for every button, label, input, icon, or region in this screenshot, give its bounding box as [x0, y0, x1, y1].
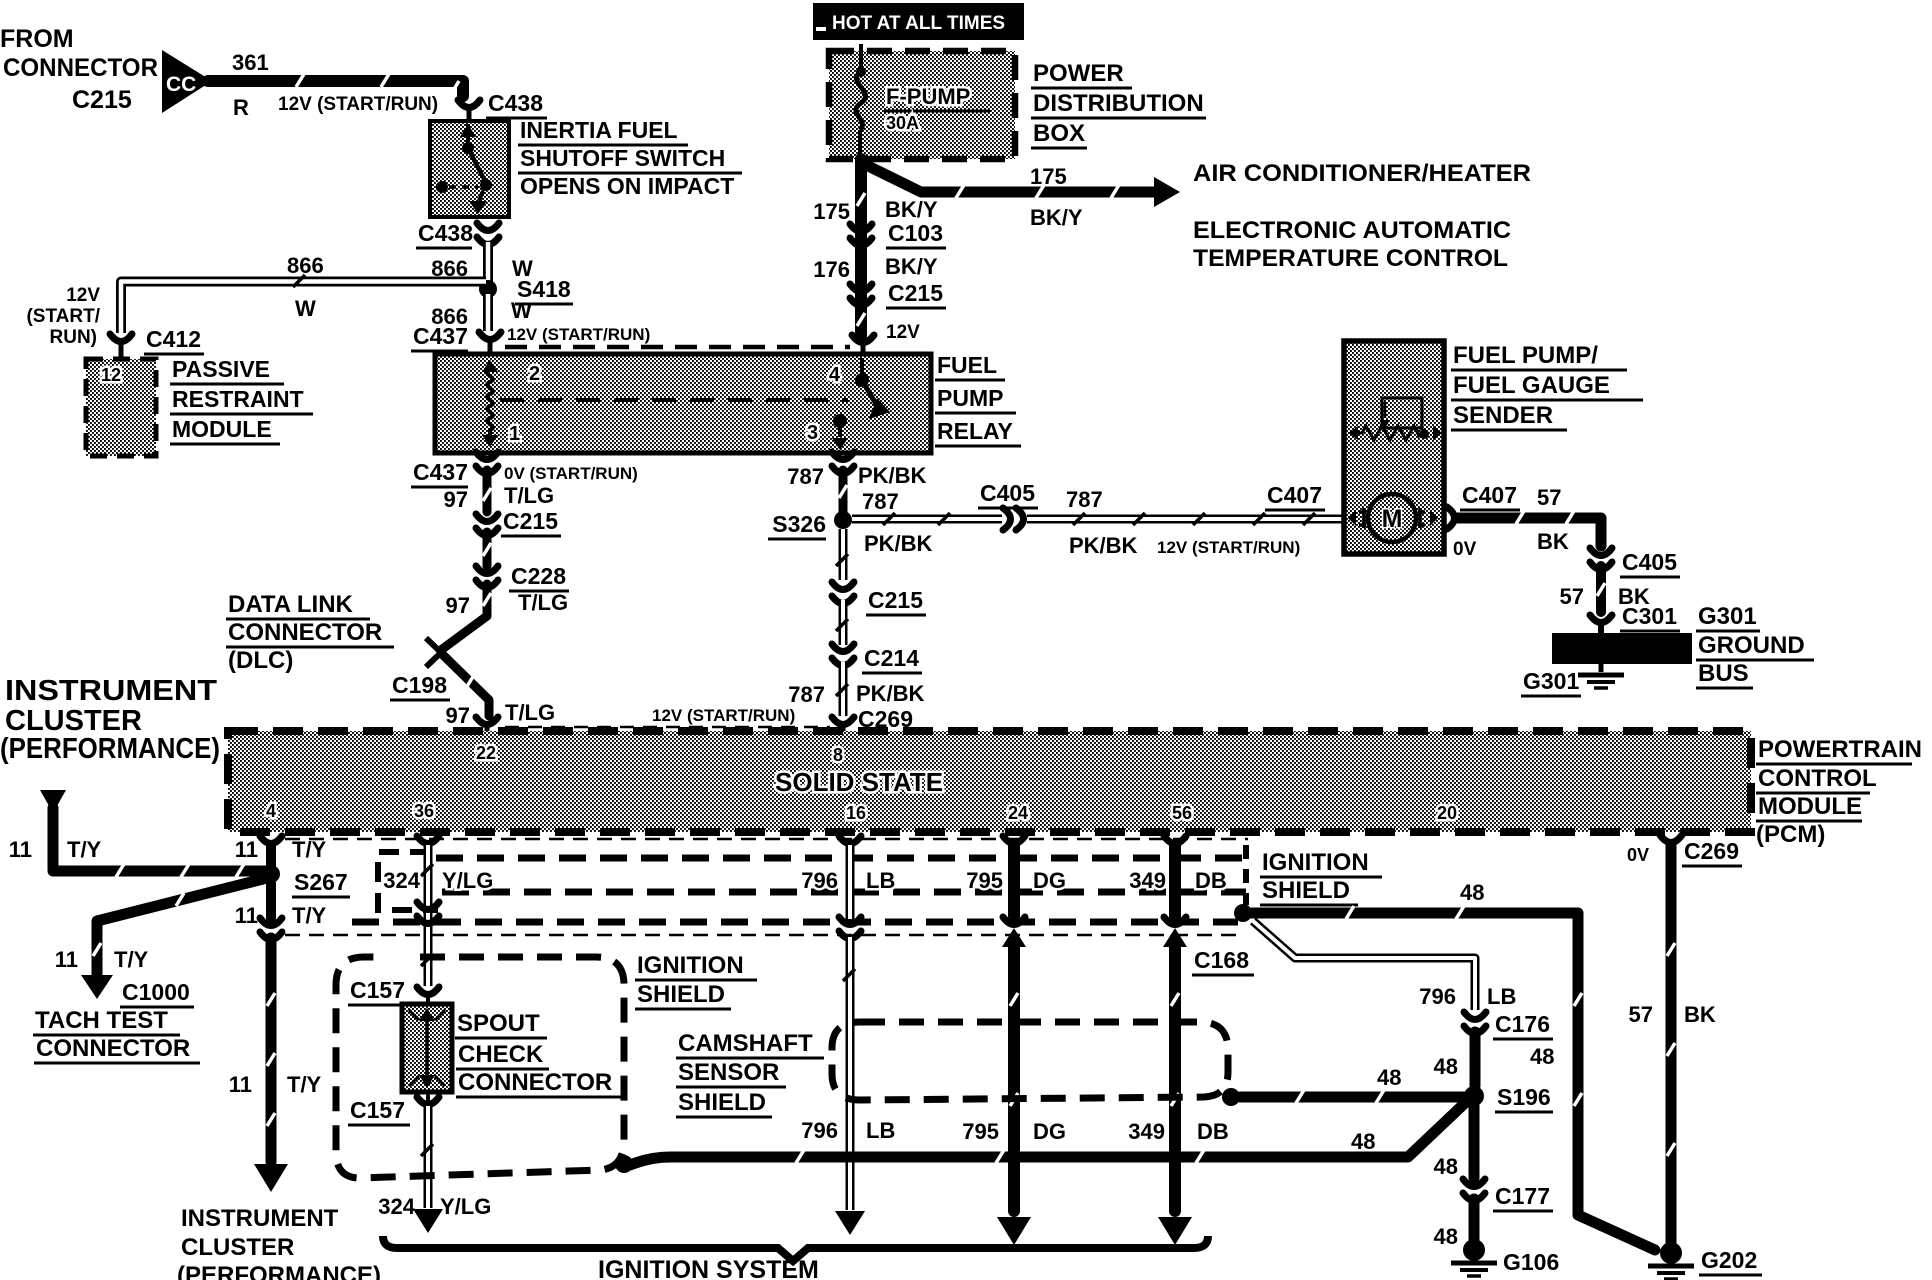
svg-text:BK: BK — [1684, 1002, 1716, 1027]
connector C103 — [813, 197, 946, 248]
svg-text:R: R — [233, 95, 249, 120]
svg-text:BK/Y: BK/Y — [885, 254, 938, 279]
label C168 — [1192, 947, 1254, 975]
wire 97 T/LG to data link connector — [441, 584, 568, 650]
svg-text:BK: BK — [1537, 529, 1569, 554]
power distribution box — [829, 51, 1015, 159]
svg-text:CONTROL: CONTROL — [1758, 765, 1877, 792]
svg-text:48: 48 — [1530, 1044, 1554, 1069]
wire 48 ignition shield to G202 — [1252, 880, 1655, 1250]
wire 787 to C214 — [836, 600, 848, 645]
label fuel pump/fuel gauge sender — [1451, 342, 1643, 430]
connector wire 796 shield exit — [839, 917, 861, 939]
fuel pump motor M — [1348, 494, 1438, 542]
connector C438 bottom pair — [416, 220, 499, 248]
svg-text:2: 2 — [529, 363, 540, 385]
connector C157 bottom — [348, 1096, 439, 1125]
wire 97 T/LG to C215 — [444, 470, 555, 512]
svg-text:Y/LG: Y/LG — [442, 868, 493, 893]
svg-text:12V: 12V — [886, 322, 920, 343]
svg-text:SPOUT: SPOUT — [457, 1010, 540, 1037]
wire antenna to S267 — [53, 864, 266, 877]
connector pin 56 exit — [1164, 836, 1186, 844]
svg-text:IGNITION SYSTEM: IGNITION SYSTEM — [598, 1256, 819, 1280]
svg-text:57: 57 — [1629, 1002, 1653, 1027]
svg-text:11: 11 — [235, 837, 258, 862]
data link connector X symbol — [426, 638, 456, 667]
svg-text:4: 4 — [829, 364, 841, 386]
svg-text:11: 11 — [235, 903, 258, 928]
label power distribution box — [1031, 60, 1206, 148]
svg-text:PK/BK: PK/BK — [858, 463, 927, 488]
svg-text:48: 48 — [1460, 880, 1484, 905]
svg-text:DG: DG — [1033, 1119, 1066, 1144]
svg-text:T/Y: T/Y — [292, 837, 327, 862]
connector C215 (BK/Y) — [813, 254, 946, 308]
svg-text:PK/BK: PK/BK — [864, 531, 933, 556]
svg-text:G301: G301 — [1698, 603, 1757, 630]
svg-text:BK/Y: BK/Y — [1030, 205, 1083, 230]
wire 57 BK pin 20 to G202 — [1629, 845, 1716, 1246]
svg-text:48: 48 — [1351, 1129, 1375, 1154]
label passive restraint module — [170, 356, 313, 444]
svg-text:IGNITION: IGNITION — [637, 952, 744, 979]
switch blade inside inertia switch — [436, 124, 492, 214]
svg-text:PK/BK: PK/BK — [856, 681, 925, 706]
connector C157 top — [348, 977, 439, 1005]
svg-text:C177: C177 — [1495, 1183, 1550, 1209]
wire 11 T/Y pin4 to S267 — [266, 845, 276, 866]
wire 795 DG lower — [962, 940, 1066, 1245]
svg-text:T/Y: T/Y — [114, 947, 149, 972]
connector C437 bottom — [411, 452, 638, 487]
spout check connector box — [402, 1004, 452, 1092]
label HOT AT ALL TIMES — [813, 3, 1024, 40]
svg-text:INSTRUMENT: INSTRUMENT — [5, 675, 217, 707]
ignition shield node dot — [1234, 904, 1252, 922]
ignition shield right closure — [1243, 845, 1249, 905]
svg-text:795: 795 — [962, 1119, 999, 1144]
svg-text:324: 324 — [383, 868, 420, 893]
label G301 left — [1521, 668, 1581, 696]
wire 11 T/Y long to instrument cluster — [229, 938, 322, 1192]
svg-text:PK/BK: PK/BK — [1069, 533, 1138, 558]
svg-text:LB: LB — [866, 868, 895, 893]
svg-text:11: 11 — [55, 947, 78, 972]
svg-text:C168: C168 — [1194, 947, 1249, 973]
svg-text:CONNECTOR: CONNECTOR — [36, 1035, 190, 1062]
svg-text:C438: C438 — [488, 90, 543, 116]
svg-text:57: 57 — [1537, 485, 1561, 510]
svg-text:C407: C407 — [1462, 482, 1517, 508]
svg-text:G202: G202 — [1701, 1247, 1757, 1273]
wire 796 LB upper — [801, 845, 895, 919]
connector pin3 exit 787 — [787, 452, 926, 489]
svg-text:C176: C176 — [1495, 1011, 1550, 1037]
svg-text:12V: 12V — [66, 285, 100, 306]
wire 175 BK/Y branch to air conditioner — [862, 163, 1180, 207]
svg-text:PUMP: PUMP — [937, 385, 1003, 411]
fuel pump/fuel gauge sender box — [1344, 341, 1444, 554]
svg-text:IGNITION: IGNITION — [1262, 849, 1369, 876]
connector pin 24 exit — [1003, 836, 1025, 844]
connector wire 349 shield exit — [1163, 917, 1187, 947]
label instrument cluster (performance) mid-left — [0, 675, 220, 765]
wire 349 DB — [1129, 845, 1227, 916]
svg-text:97: 97 — [444, 487, 468, 512]
svg-text:11: 11 — [9, 837, 32, 862]
svg-text:G301: G301 — [1523, 668, 1579, 694]
svg-text:T/LG: T/LG — [518, 590, 568, 615]
connector C215 (787) — [832, 582, 926, 615]
PCM pin numbers — [266, 743, 1457, 823]
svg-text:C215: C215 — [868, 587, 923, 613]
svg-text:30A: 30A — [886, 113, 919, 133]
svg-text:C405: C405 — [1622, 549, 1677, 575]
svg-text:CC: CC — [166, 73, 196, 96]
svg-text:796: 796 — [1419, 984, 1456, 1009]
label camshaft sensor shield — [676, 1030, 824, 1117]
wire 57 BK sender to C405 — [1458, 511, 1601, 546]
label instrument cluster (performance) bottom — [177, 1205, 381, 1280]
connector 12V into relay pin 4 — [852, 322, 920, 355]
fuse F-PUMP 30A — [856, 44, 990, 160]
connector C407 left — [1265, 482, 1353, 530]
label air conditioner/heater — [1193, 160, 1531, 187]
relay coil pins 2-1 — [482, 360, 540, 447]
camshaft sensor shield oval — [832, 1022, 1228, 1100]
svg-text:TACH TEST: TACH TEST — [35, 1007, 168, 1034]
svg-text:POWERTRAIN: POWERTRAIN — [1758, 736, 1922, 763]
label 175 BK/Y branch — [1030, 164, 1083, 230]
connector pin 4 exit — [235, 836, 327, 862]
svg-text:(START/: (START/ — [26, 306, 100, 327]
connector pin 20 exit C269 — [1627, 835, 1742, 866]
svg-text:BOX: BOX — [1033, 120, 1085, 147]
svg-text:C438: C438 — [418, 220, 473, 246]
svg-text:RELAY: RELAY — [937, 418, 1013, 444]
connector C438 top — [458, 90, 547, 121]
svg-text:GROUND: GROUND — [1698, 632, 1805, 659]
svg-text:C215: C215 — [72, 86, 132, 114]
svg-text:TEMPERATURE CONTROL: TEMPERATURE CONTROL — [1193, 245, 1508, 272]
label electronic automatic temperature control — [1193, 217, 1511, 272]
svg-text:787: 787 — [1066, 487, 1103, 512]
svg-text:3: 3 — [807, 422, 818, 444]
svg-text:BUS: BUS — [1698, 660, 1749, 687]
svg-text:C407: C407 — [1267, 482, 1322, 508]
svg-text:LB: LB — [1487, 984, 1516, 1009]
connector C301 — [1590, 603, 1680, 634]
wire 796 LB lower — [801, 937, 895, 1235]
label 12V (START/RUN) left — [26, 285, 100, 348]
svg-text:12V (START/RUN): 12V (START/RUN) — [652, 706, 795, 725]
svg-text:C215: C215 — [888, 280, 943, 306]
label ignition shield right — [1260, 849, 1382, 905]
svg-text:36: 36 — [414, 801, 434, 821]
connector on wire 324 shield exit — [417, 902, 439, 924]
svg-text:(PCM): (PCM) — [1756, 821, 1825, 848]
relay internal dashed actuate line — [500, 398, 848, 402]
svg-text:C157: C157 — [350, 977, 405, 1003]
svg-text:CHECK: CHECK — [458, 1041, 544, 1068]
svg-text:48: 48 — [1377, 1065, 1401, 1090]
wire 795 DG — [966, 845, 1066, 916]
connector pin 22 entry — [476, 717, 498, 734]
svg-text:SOLID STATE: SOLID STATE — [775, 767, 943, 797]
wire 787 PK/BK to C407 — [1027, 487, 1344, 558]
ground G202 — [1648, 1242, 1762, 1279]
svg-text:361: 361 — [232, 50, 269, 75]
svg-text:C215: C215 — [503, 508, 558, 534]
svg-text:8: 8 — [833, 745, 843, 765]
sender resistor — [1349, 426, 1442, 440]
svg-text:C269: C269 — [1684, 838, 1739, 864]
svg-text:787: 787 — [862, 489, 899, 514]
svg-text:795: 795 — [966, 868, 1003, 893]
label SOLID STATE — [775, 767, 943, 797]
svg-text:FUEL GAUGE: FUEL GAUGE — [1453, 372, 1610, 399]
wire 787 PK/BK to C405 — [852, 513, 1002, 556]
svg-text:T/Y: T/Y — [67, 837, 102, 862]
wire 349 DB lower — [1128, 940, 1229, 1245]
svg-text:SENSOR: SENSOR — [678, 1059, 779, 1086]
inertia fuel shutoff switch box — [430, 121, 509, 217]
svg-text:BK/Y: BK/Y — [885, 197, 938, 222]
svg-text:POWER: POWER — [1033, 60, 1124, 87]
svg-text:48: 48 — [1434, 1054, 1458, 1079]
svg-text:T/Y: T/Y — [287, 1072, 322, 1097]
svg-text:48: 48 — [1434, 1154, 1458, 1179]
connector C228 — [476, 563, 569, 591]
wire 48 C176 to S196 — [1434, 1032, 1475, 1086]
svg-text:12V (START/RUN): 12V (START/RUN) — [507, 325, 650, 344]
svg-text:DISTRIBUTION: DISTRIBUTION — [1033, 90, 1204, 117]
svg-text:1: 1 — [509, 423, 520, 445]
connector wire 795 shield exit — [1002, 917, 1026, 947]
svg-text:CONNECTOR: CONNECTOR — [3, 54, 158, 82]
ignition shield dashed rows — [285, 839, 1248, 935]
camshaft sensor shield node dot — [1222, 1088, 1240, 1106]
svg-text:C1000: C1000 — [122, 979, 190, 1005]
powertrain control module (PCM) box — [228, 731, 1751, 832]
svg-text:W: W — [295, 296, 316, 321]
ignition shield left closure around 324 — [378, 852, 438, 910]
wire 48 camshaft shield to S196 — [1240, 1065, 1464, 1103]
svg-text:12V (START/RUN): 12V (START/RUN) — [278, 94, 438, 115]
label G301 ground bus — [1696, 603, 1814, 688]
svg-text:24: 24 — [1008, 803, 1028, 823]
svg-text:PASSIVE: PASSIVE — [172, 356, 270, 382]
svg-text:S326: S326 — [772, 511, 826, 537]
label ignition system — [598, 1256, 819, 1280]
label C1000 tach test connector — [33, 979, 200, 1063]
label fuel pump relay — [935, 352, 1021, 446]
svg-text:MODULE: MODULE — [1758, 793, 1862, 820]
svg-text:(PERFORMANCE): (PERFORMANCE) — [177, 1262, 381, 1280]
wire 866 W (switch to S418) — [431, 242, 533, 284]
svg-text:C301: C301 — [1622, 603, 1677, 629]
splice S267 — [262, 865, 350, 897]
svg-text:INERTIA FUEL: INERTIA FUEL — [520, 117, 678, 143]
svg-text:C437: C437 — [413, 459, 468, 485]
wire 787 PK/BK to PCM pin 8 — [788, 662, 924, 716]
wire 48 S196 to C177 — [1434, 1106, 1474, 1179]
svg-text:T/LG: T/LG — [505, 700, 555, 725]
svg-text:C103: C103 — [888, 220, 943, 246]
svg-text:22: 22 — [476, 743, 496, 763]
svg-text:SHIELD: SHIELD — [1262, 877, 1350, 904]
connector C437 top — [411, 323, 650, 355]
splice S196 — [1464, 1084, 1553, 1112]
svg-text:SHIELD: SHIELD — [678, 1089, 766, 1116]
svg-text:G106: G106 — [1503, 1249, 1559, 1275]
wire 866 W (S418 to C437) — [431, 294, 532, 331]
svg-text:C228: C228 — [511, 563, 566, 589]
label data link connector (DLC) — [226, 591, 394, 674]
svg-text:C437: C437 — [413, 323, 468, 349]
ground G106 — [1451, 1239, 1559, 1276]
wire 48 ignition oval to S196 diagonal — [630, 1103, 1465, 1165]
svg-text:176: 176 — [813, 257, 850, 282]
wire 11 T/Y S267 to tach test connector — [55, 879, 263, 999]
svg-text:16: 16 — [846, 803, 866, 823]
svg-text:175: 175 — [1030, 164, 1067, 189]
svg-text:ELECTRONIC AUTOMATIC: ELECTRONIC AUTOMATIC — [1193, 217, 1511, 244]
svg-text:FUEL PUMP/: FUEL PUMP/ — [1453, 342, 1598, 369]
wire 324 Y/LG to ignition system — [378, 1106, 491, 1233]
svg-text:DG: DG — [1033, 868, 1066, 893]
svg-text:787: 787 — [788, 682, 825, 707]
svg-text:S196: S196 — [1497, 1084, 1551, 1110]
svg-text:DB: DB — [1197, 1119, 1229, 1144]
svg-text:C214: C214 — [864, 645, 919, 671]
ignition system bracket — [383, 1236, 1208, 1261]
svg-text:56: 56 — [1172, 803, 1192, 823]
svg-text:97: 97 — [446, 593, 470, 618]
svg-text:OPENS ON IMPACT: OPENS ON IMPACT — [520, 173, 734, 199]
svg-text:57: 57 — [1560, 584, 1584, 609]
svg-text:Y/LG: Y/LG — [440, 1194, 491, 1219]
svg-text:SHUTOFF SWITCH: SHUTOFF SWITCH — [520, 145, 725, 171]
svg-text:INSTRUMENT: INSTRUMENT — [181, 1205, 339, 1232]
svg-text:866: 866 — [287, 253, 324, 278]
svg-text:11: 11 — [229, 1072, 252, 1097]
wire 175 BK/Y fuse down to relay — [857, 159, 865, 336]
svg-text:(PERFORMANCE): (PERFORMANCE) — [0, 733, 220, 765]
connector C405 (787) — [978, 480, 1038, 530]
svg-text:349: 349 — [1129, 868, 1166, 893]
connector C405 right — [1590, 548, 1680, 577]
svg-text:175: 175 — [813, 199, 850, 224]
wire 361 R 12V (START/RUN) — [208, 74, 463, 96]
svg-text:787: 787 — [787, 464, 824, 489]
svg-text:T/Y: T/Y — [292, 903, 327, 928]
svg-text:C157: C157 — [350, 1097, 405, 1123]
svg-text:S267: S267 — [294, 869, 348, 895]
svg-text:20: 20 — [1437, 803, 1457, 823]
svg-text:DB: DB — [1195, 868, 1227, 893]
wire 48 C177 to G106 — [1434, 1199, 1474, 1249]
label inertia fuel shutoff switch — [518, 117, 742, 199]
svg-text:CONNECTOR: CONNECTOR — [458, 1069, 612, 1096]
node: FROM CONNECTOR C215 label — [0, 25, 158, 114]
svg-text:796: 796 — [801, 1118, 838, 1143]
svg-text:C198: C198 — [392, 672, 447, 698]
svg-text:0V: 0V — [1453, 539, 1477, 560]
svg-text:C405: C405 — [980, 480, 1035, 506]
svg-text:LB: LB — [866, 1118, 895, 1143]
svg-text:324: 324 — [378, 1194, 415, 1219]
svg-text:SHIELD: SHIELD — [637, 981, 725, 1008]
thin dashed link above PCM — [505, 726, 830, 729]
connector pin 16 exit — [839, 836, 861, 844]
svg-text:C412: C412 — [146, 326, 201, 352]
splice S326 — [768, 489, 899, 539]
label spout check connector — [455, 1010, 627, 1097]
connector C269 pin 8 entry — [652, 706, 916, 734]
wire 787 S326 down to C215 — [836, 529, 848, 580]
relay switch pins 4-3 — [807, 358, 890, 450]
svg-text:796: 796 — [801, 868, 838, 893]
ignition shield oval node dot — [615, 1155, 633, 1173]
connector pin 36 exit — [417, 836, 439, 844]
sender float loop — [1380, 398, 1422, 429]
svg-text:AIR CONDITIONER/HEATER: AIR CONDITIONER/HEATER — [1193, 160, 1531, 187]
svg-text:RESTRAINT: RESTRAINT — [172, 386, 304, 412]
wire 11 T/Y below S267 — [235, 883, 327, 928]
svg-text:FUEL: FUEL — [937, 352, 997, 378]
svg-text:DATA LINK: DATA LINK — [228, 591, 354, 618]
connector C412 — [110, 326, 204, 358]
fuel pump relay box — [435, 354, 931, 453]
svg-text:F-PUMP: F-PUMP — [886, 84, 970, 109]
label wire 361 R — [232, 50, 438, 120]
label ignition shield left — [635, 952, 757, 1009]
svg-text:M: M — [1382, 505, 1403, 533]
svg-text:0V (START/RUN): 0V (START/RUN) — [504, 464, 638, 483]
connector C176 — [1464, 1011, 1554, 1069]
wire 97 T/LG DLC to PCM pin 22 — [390, 653, 555, 728]
antenna symbol instrument cluster — [9, 790, 102, 868]
connector C407 right — [1447, 482, 1569, 560]
svg-text:(DLC): (DLC) — [228, 647, 293, 674]
svg-text:RUN): RUN) — [50, 327, 98, 348]
svg-text:CLUSTER: CLUSTER — [181, 1234, 294, 1261]
wire 866 W to passive restraint module — [121, 253, 486, 333]
svg-text:12: 12 — [101, 365, 121, 385]
wire 324 Y/LG to C157 — [383, 845, 493, 986]
svg-text:97: 97 — [446, 703, 470, 728]
dashed line above relay — [505, 345, 850, 350]
svg-text:4: 4 — [266, 801, 276, 821]
ground bus G301 — [1552, 633, 1692, 688]
connector CC (from C215) triangle — [162, 50, 212, 113]
svg-text:0V: 0V — [1627, 845, 1649, 865]
svg-text:T/LG: T/LG — [504, 483, 554, 508]
connector on wire 11 — [260, 918, 282, 940]
wire 97 to C228 — [483, 532, 491, 566]
connector C214 — [832, 644, 922, 673]
svg-text:W: W — [511, 298, 532, 323]
svg-text:MODULE: MODULE — [172, 416, 272, 442]
wire 787 to S326 — [839, 470, 847, 512]
wire 57 BK to C301 — [1560, 566, 1650, 612]
label powertrain control module (PCM) — [1756, 736, 1922, 848]
svg-text:48: 48 — [1434, 1224, 1458, 1249]
svg-text:CONNECTOR: CONNECTOR — [228, 619, 382, 646]
svg-text:349: 349 — [1128, 1119, 1165, 1144]
